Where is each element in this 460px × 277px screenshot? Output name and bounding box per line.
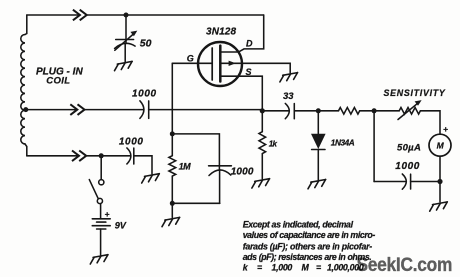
svg-text:33: 33 (283, 91, 294, 102)
svg-text:9V: 9V (115, 221, 127, 231)
svg-text:50: 50 (140, 38, 152, 50)
svg-text:G: G (187, 53, 194, 63)
svg-text:farads (µF); others are in pic: farads (µF); others are in picofar- (243, 242, 373, 252)
svg-text:S: S (246, 67, 252, 77)
svg-text:+: + (105, 209, 110, 219)
svg-text:+: + (443, 124, 448, 134)
svg-text:COIL: COIL (46, 75, 70, 86)
svg-text:=: = (316, 263, 321, 273)
svg-text:1000: 1000 (231, 166, 254, 177)
svg-text:1000: 1000 (119, 137, 144, 148)
svg-text:1000: 1000 (395, 161, 420, 172)
svg-text:1000: 1000 (132, 88, 157, 99)
svg-text:3N128: 3N128 (206, 27, 237, 38)
svg-text:ads (pF); resistances are in o: ads (pF); resistances are in ohms. (243, 252, 372, 262)
svg-text:M: M (437, 141, 445, 151)
svg-text:D: D (246, 39, 253, 49)
svg-text:Except as indicated, decimal: Except as indicated, decimal (243, 220, 354, 230)
svg-text:1N34A: 1N34A (331, 139, 355, 148)
svg-text:50µA: 50µA (397, 143, 421, 154)
svg-text:SeekIC.com: SeekIC.com (357, 253, 453, 275)
svg-text:1k: 1k (269, 140, 278, 149)
svg-text:M: M (302, 263, 310, 273)
svg-text:1,000: 1,000 (272, 263, 293, 273)
svg-text:=: = (257, 263, 262, 273)
svg-text:k: k (243, 263, 249, 273)
svg-text:SENSITIVITY: SENSITIVITY (384, 88, 446, 98)
svg-text:values of capacitance are in m: values of capacitance are in micro- (243, 230, 376, 240)
svg-text:1M: 1M (179, 161, 192, 171)
